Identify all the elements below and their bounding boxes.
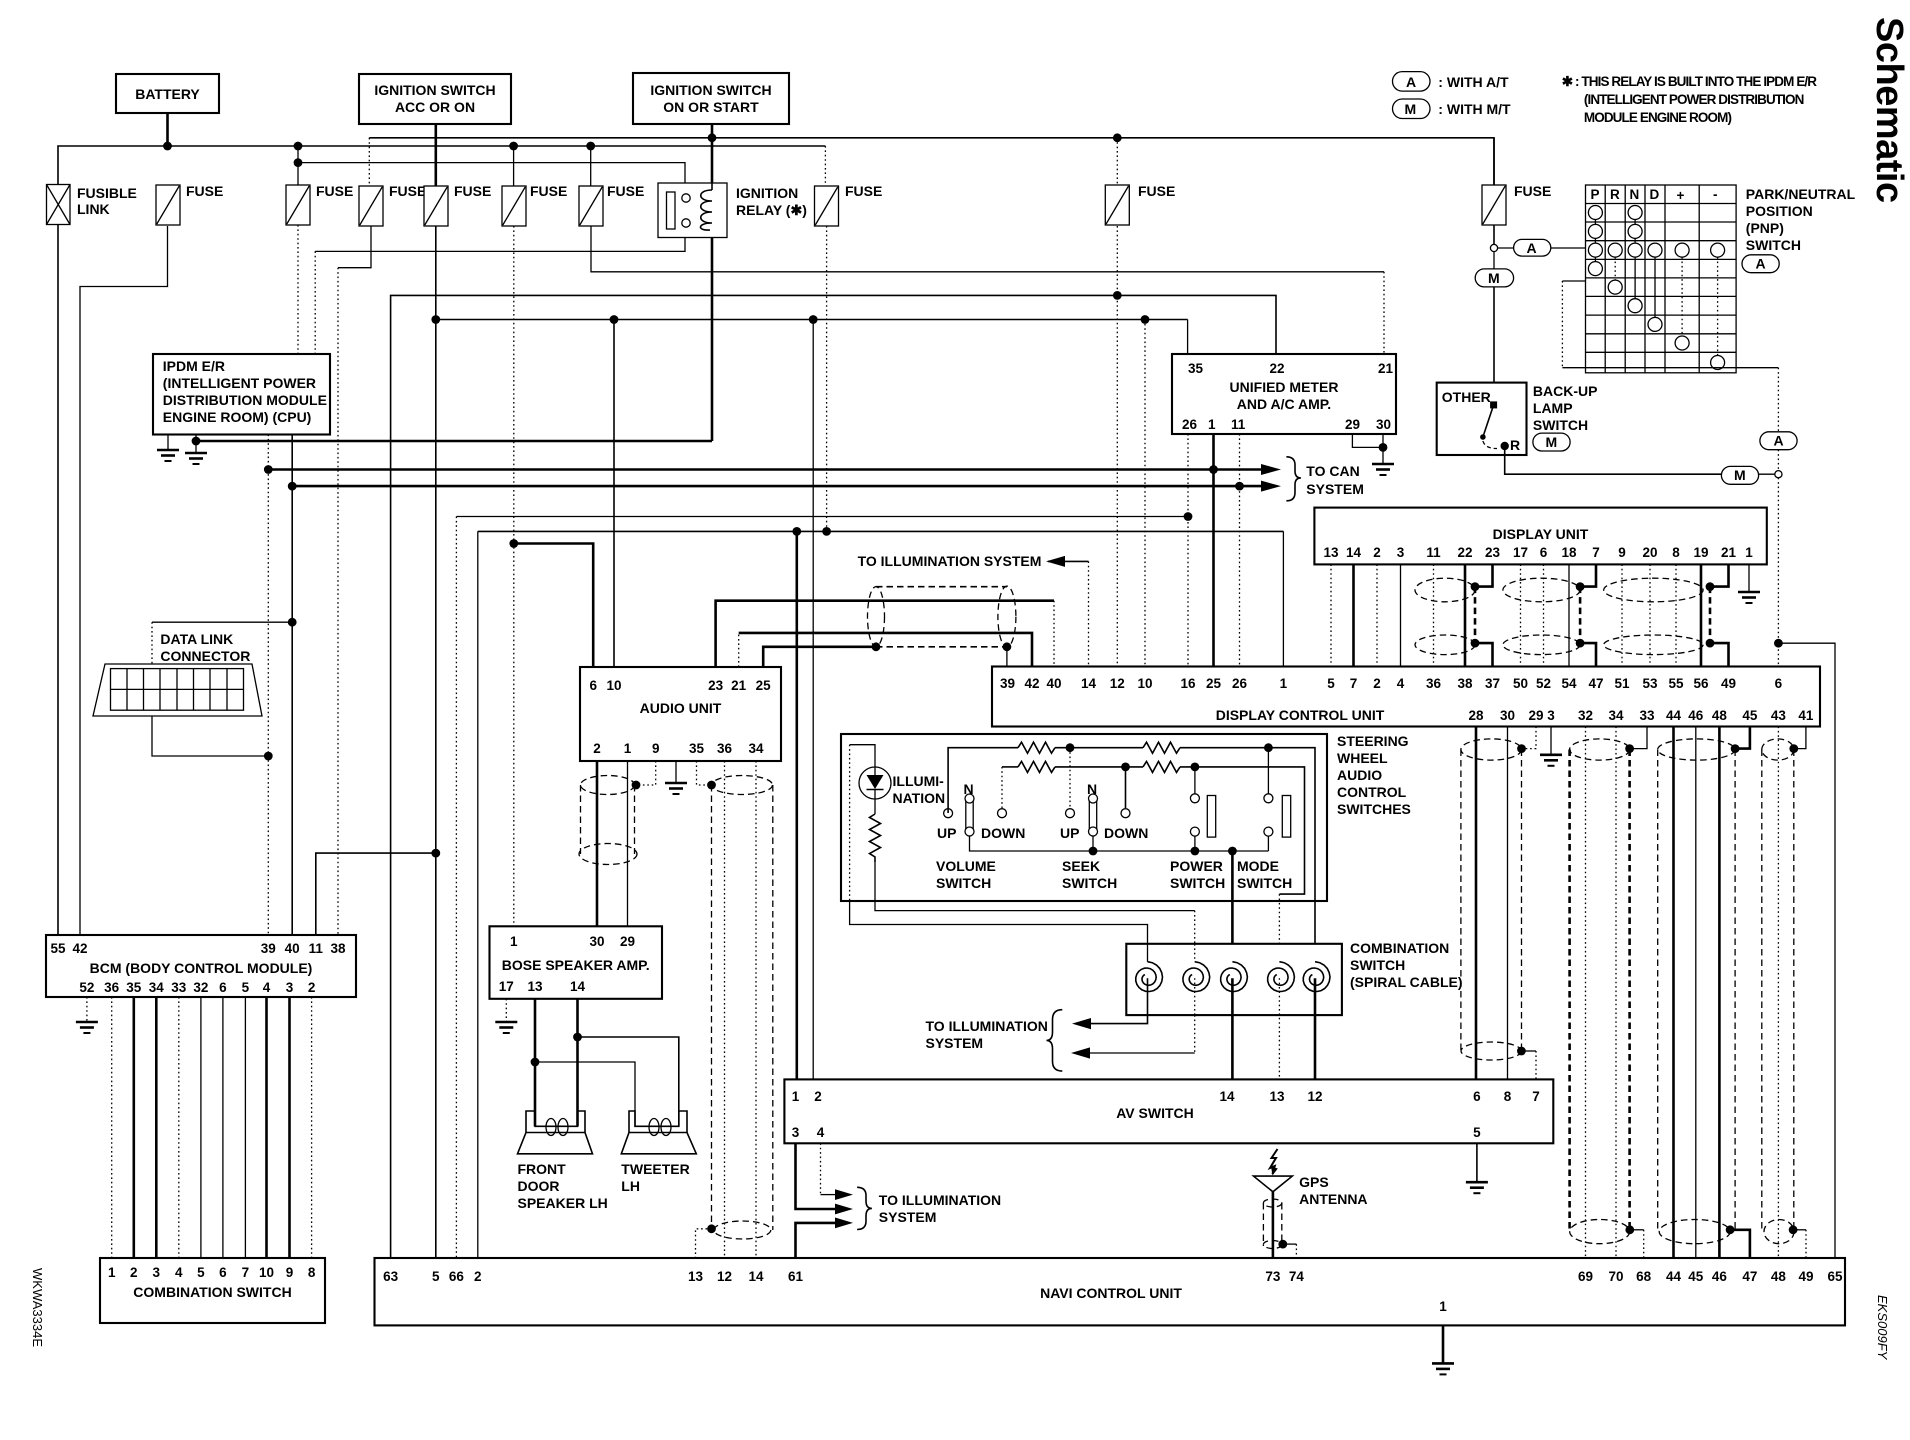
svg-text:SWITCH: SWITCH <box>1533 417 1588 433</box>
svg-text:53: 53 <box>1642 676 1658 691</box>
wire BCM4-CS10 <box>265 997 268 1258</box>
svg-text:12: 12 <box>1110 676 1125 691</box>
wire unified11 CAN-L vertical dotted <box>1239 434 1241 667</box>
wire dcu44 to navi44 <box>1672 727 1675 1259</box>
shield audio-BOSE cylinder <box>581 776 635 795</box>
svg-text:21: 21 <box>1378 361 1394 376</box>
svg-text:50: 50 <box>1513 676 1528 691</box>
wire fuse1494 out <box>1493 225 1495 245</box>
wire unified1 CAN-H vertical <box>1212 434 1215 667</box>
svg-text:AND A/C AMP.: AND A/C AMP. <box>1237 396 1331 412</box>
wire shield to DCU39 <box>1006 647 1008 667</box>
wire dcu46 to navi45 <box>1695 727 1697 1259</box>
svg-text:63: 63 <box>383 1269 399 1284</box>
wire fuse514 out dotted to BOSE1 <box>513 226 515 926</box>
wire disp6-dcu52 <box>1543 564 1545 666</box>
connector M oval backup <box>1533 433 1570 451</box>
svg-text:FUSE: FUSE <box>316 183 353 199</box>
box display unit <box>1314 508 1766 565</box>
svg-text:48: 48 <box>1771 1269 1787 1284</box>
svg-text:13: 13 <box>527 979 543 994</box>
svg-text:34: 34 <box>748 741 764 756</box>
box audio unit <box>580 667 781 761</box>
wire BCM32-CS5 <box>200 997 202 1258</box>
box display control unit <box>992 667 1820 727</box>
svg-text:9: 9 <box>286 1265 294 1280</box>
svg-text:5: 5 <box>197 1265 205 1280</box>
svg-text:FUSE: FUSE <box>845 183 882 199</box>
wire disp21-dcu49 drain <box>1710 564 1729 586</box>
svg-text:10: 10 <box>606 678 621 693</box>
svg-text:LH: LH <box>621 1178 640 1194</box>
svg-text:NAVI CONTROL UNIT: NAVI CONTROL UNIT <box>1040 1285 1182 1301</box>
wire PNP R-row to A oval (L path) <box>1562 280 1585 282</box>
wire AV5 ground <box>1476 1143 1478 1182</box>
wire BCM34-CS3 <box>155 997 158 1258</box>
svg-text:SWITCH: SWITCH <box>1237 875 1292 891</box>
spiral 1 <box>1136 944 1163 1015</box>
svg-text:SWITCH: SWITCH <box>936 875 991 891</box>
wire BOSE13 branch to tweeter <box>535 1062 635 1126</box>
svg-text:1: 1 <box>1280 676 1288 691</box>
svg-text:1: 1 <box>1208 417 1216 432</box>
wire top row y=747.7 <box>948 748 1018 813</box>
svg-text:2: 2 <box>308 980 316 995</box>
wire dcu30 to AV8 <box>1507 727 1509 1080</box>
connector data link trapezoid <box>93 664 262 716</box>
box ignition switch on/start <box>633 73 789 124</box>
svg-text:6: 6 <box>1540 545 1548 560</box>
svg-text:DOOR: DOOR <box>518 1178 560 1194</box>
wire disp19-dcu56 <box>1700 564 1703 666</box>
svg-text:1: 1 <box>1745 545 1753 560</box>
svg-text:44: 44 <box>1666 1269 1682 1284</box>
wire audio25 shield drain <box>763 647 876 667</box>
wire disp8-dcu55 <box>1675 564 1677 666</box>
wire mode upper feed <box>1267 748 1269 794</box>
wire disp3-dcu4 <box>1400 564 1402 666</box>
svg-text:A: A <box>1406 74 1416 90</box>
PNP links <box>1595 220 1717 356</box>
svg-text:POSITION: POSITION <box>1746 203 1813 219</box>
svg-text:SWITCHES: SWITCHES <box>1337 801 1411 817</box>
svg-text:73: 73 <box>1265 1269 1281 1284</box>
svg-text:R: R <box>1610 187 1620 202</box>
svg-text:39: 39 <box>261 941 276 956</box>
svg-text:7: 7 <box>1350 676 1358 691</box>
svg-text:35: 35 <box>1188 361 1204 376</box>
svg-text:SPEAKER LH: SPEAKER LH <box>518 1195 608 1211</box>
svg-text:BOSE SPEAKER AMP.: BOSE SPEAKER AMP. <box>502 957 650 973</box>
wire A/M dotted vertical to DCU6 <box>1777 478 1779 667</box>
table PNP switch grid <box>1586 185 1737 373</box>
svg-text:DISTRIBUTION MODULE: DISTRIBUTION MODULE <box>163 392 327 408</box>
wire branch to navi65 <box>1778 643 1835 1258</box>
wire to A oval <box>1498 247 1514 249</box>
svg-text:8: 8 <box>1672 545 1680 560</box>
wire disp1 ground <box>1748 564 1750 592</box>
wire fuse514 feed <box>513 146 515 186</box>
resistor R3 <box>1018 761 1055 772</box>
wire illumination out below box <box>850 901 1148 944</box>
arrow CAN1 <box>1261 464 1281 475</box>
wire second row y=766.9 <box>1001 767 1003 808</box>
shield display groupC ellipses <box>1604 578 1703 602</box>
svg-text:42: 42 <box>1024 676 1039 691</box>
svg-text:32: 32 <box>193 980 208 995</box>
connector M oval <box>1475 269 1513 287</box>
shield audio-DCU dashed cylinder <box>876 586 1007 588</box>
wire unified35 drop <box>1187 320 1189 355</box>
svg-text:74: 74 <box>1289 1269 1305 1284</box>
svg-text:3: 3 <box>1547 708 1555 723</box>
svg-text:FUSE: FUSE <box>389 183 426 199</box>
svg-text:16: 16 <box>1180 676 1196 691</box>
wire disp2-dcu2 <box>1376 564 1378 666</box>
svg-text:56: 56 <box>1693 676 1709 691</box>
brace to CAN system <box>1286 457 1301 501</box>
svg-text:FUSIBLE: FUSIBLE <box>77 185 137 201</box>
wire M oval to backup lamp switch <box>1493 287 1495 405</box>
svg-text:28: 28 <box>1468 708 1484 723</box>
wire dcu43 to navi48 dotted <box>1777 727 1779 1259</box>
svg-text:21: 21 <box>1721 545 1737 560</box>
shield display groupA ellipses <box>1415 578 1475 602</box>
brace illumination mid <box>1047 1010 1063 1071</box>
wire audio2 to BOSE30 <box>596 761 599 926</box>
antenna GPS triangle <box>1254 1176 1293 1192</box>
svg-text:46: 46 <box>1688 708 1704 723</box>
svg-text:42: 42 <box>72 941 87 956</box>
ground IPDM 2 <box>195 435 197 454</box>
box navi control unit <box>375 1258 1846 1325</box>
svg-text:30: 30 <box>589 934 604 949</box>
svg-text:14: 14 <box>1346 545 1362 560</box>
svg-text:A: A <box>1527 240 1537 256</box>
svg-text:11: 11 <box>309 941 324 956</box>
svg-text:38: 38 <box>1457 676 1473 691</box>
svg-text:LAMP: LAMP <box>1533 400 1573 416</box>
svg-text:20: 20 <box>1642 545 1657 560</box>
wire fuse298 feed <box>297 146 299 185</box>
PNP circles column P <box>1588 206 1724 370</box>
box steering wheel audio control switches <box>841 734 1327 901</box>
wire BCM40 vertical from IPDM <box>291 435 293 936</box>
wire AV3 to illumination arrow <box>796 1143 837 1209</box>
connector legend M oval <box>1393 99 1431 119</box>
svg-text:-: - <box>1713 187 1718 202</box>
resistor LED series vertical <box>870 814 881 862</box>
wire BCM35-CS2 <box>133 997 136 1258</box>
svg-text:DOWN: DOWN <box>1104 825 1148 841</box>
svg-text:35: 35 <box>126 980 142 995</box>
svg-text:N: N <box>964 781 974 797</box>
svg-text:IPDM E/R: IPDM E/R <box>163 358 225 374</box>
shield group3 cylinder <box>1658 739 1735 760</box>
svg-text:6: 6 <box>589 678 597 693</box>
svg-text:46: 46 <box>1712 1269 1728 1284</box>
svg-text:A: A <box>1774 433 1784 449</box>
svg-text:PARK/NEUTRAL: PARK/NEUTRAL <box>1746 186 1856 202</box>
wire volume common <box>970 836 1269 851</box>
fusible link <box>47 185 137 225</box>
svg-text:13: 13 <box>688 1269 704 1284</box>
switch backup lamp lever <box>1490 401 1497 408</box>
wire audio10 drop <box>613 320 615 668</box>
svg-text:36: 36 <box>1426 676 1442 691</box>
shield display groupB ellipses <box>1503 578 1580 602</box>
wire TO ILLUMINATION top DCU14 <box>1048 560 1089 562</box>
wire backup R to M oval to circle <box>1505 446 1722 474</box>
wire disp14-dcu7 <box>1352 564 1355 666</box>
wire mode common output heavy <box>1231 851 1234 962</box>
svg-text:8: 8 <box>308 1265 316 1280</box>
svg-text:1: 1 <box>1439 1299 1447 1314</box>
svg-text:DOWN: DOWN <box>981 825 1025 841</box>
antenna GPS bolt <box>1270 1149 1278 1174</box>
svg-text:A: A <box>1756 256 1766 272</box>
svg-text:SWITCH: SWITCH <box>1350 957 1405 973</box>
wire data link top branch <box>152 621 292 623</box>
shield audio-navi long cylinder <box>712 776 773 795</box>
svg-text:36: 36 <box>104 980 120 995</box>
svg-text:13: 13 <box>1323 545 1339 560</box>
svg-text:STEERING: STEERING <box>1337 733 1409 749</box>
wire AV4 to illumination arrow dotted <box>820 1143 822 1194</box>
svg-text:TO CAN: TO CAN <box>1306 463 1359 479</box>
wire dcu3 ground <box>1550 727 1552 755</box>
svg-text:COMBINATION SWITCH: COMBINATION SWITCH <box>133 1284 291 1300</box>
svg-text:2: 2 <box>814 1089 822 1104</box>
box backup lamp switch <box>1437 383 1527 455</box>
wire audio9 drain dotted <box>636 761 656 785</box>
svg-text:65: 65 <box>1827 1269 1843 1284</box>
svg-text:66: 66 <box>449 1269 465 1284</box>
svg-text:FUSE: FUSE <box>1138 183 1175 199</box>
wire unified26 net y=516.5 to navi66 <box>1187 434 1189 667</box>
connector A oval <box>1514 239 1551 256</box>
svg-text:DATA LINK: DATA LINK <box>160 631 233 647</box>
wire fuse592 out to unified21 <box>591 226 1384 272</box>
svg-text:3: 3 <box>286 980 294 995</box>
svg-text:IGNITION SWITCH: IGNITION SWITCH <box>374 82 495 98</box>
svg-text:26: 26 <box>1182 417 1198 432</box>
svg-text:7: 7 <box>1532 1089 1540 1104</box>
shield group2 cylinder heavy dashed <box>1570 739 1630 760</box>
svg-text:5: 5 <box>432 1269 440 1284</box>
svg-text:52: 52 <box>1536 676 1551 691</box>
wire dcu29 drain <box>1522 727 1537 749</box>
svg-text:32: 32 <box>1578 708 1593 723</box>
svg-text:2: 2 <box>593 741 601 756</box>
resistor R2 <box>1143 742 1180 753</box>
wire navi61 to illumination arrow <box>796 1223 837 1258</box>
svg-text:DISPLAY CONTROL UNIT: DISPLAY CONTROL UNIT <box>1216 707 1385 723</box>
svg-text:47: 47 <box>1588 676 1603 691</box>
wire BOSE13 to speaker <box>534 999 537 1127</box>
wire led out below box <box>875 901 1195 911</box>
svg-text:DISPLAY UNIT: DISPLAY UNIT <box>1493 526 1589 542</box>
wire dcu41 drain <box>1794 727 1806 749</box>
svg-text:ACC OR ON: ACC OR ON <box>395 99 475 115</box>
svg-text:10: 10 <box>1137 676 1152 691</box>
svg-text:(INTELLIGENT POWER: (INTELLIGENT POWER <box>163 375 316 391</box>
wire audio21 to DCU42 <box>738 633 740 667</box>
svg-text:14: 14 <box>748 1269 764 1284</box>
svg-text:7: 7 <box>242 1265 250 1280</box>
svg-text:23: 23 <box>708 678 724 693</box>
wire A oval to grid <box>1551 247 1586 249</box>
svg-text:70: 70 <box>1608 1269 1623 1284</box>
fuse 437 <box>424 183 491 226</box>
box combination switch <box>100 1258 325 1323</box>
LED illumination <box>859 767 891 799</box>
wire spiral2 out to illumination arrow dotted <box>1194 1015 1196 1053</box>
svg-text:M: M <box>1405 101 1417 117</box>
svg-text:33: 33 <box>1639 708 1655 723</box>
svg-text:25: 25 <box>1206 676 1222 691</box>
wire BCM33-CS4 <box>178 997 180 1258</box>
svg-text:BCM (BODY CONTROL MODULE): BCM (BODY CONTROL MODULE) <box>90 960 313 976</box>
svg-text:11: 11 <box>1426 545 1441 560</box>
box AV switch <box>784 1079 1553 1143</box>
svg-text:ANTENNA: ANTENNA <box>1299 1191 1367 1207</box>
svg-text:LINK: LINK <box>77 201 110 217</box>
svg-text:51: 51 <box>1614 676 1630 691</box>
svg-text:R: R <box>1510 437 1520 453</box>
wire BCM36-CS1 <box>111 997 113 1258</box>
shield GPS dashed <box>1263 1199 1281 1207</box>
wire ignition ON/START line y=137.8 <box>368 138 370 186</box>
brace illumination bottom right <box>857 1187 872 1229</box>
svg-text:61: 61 <box>788 1269 804 1284</box>
svg-text:CONNECTOR: CONNECTOR <box>160 648 250 664</box>
svg-text:MODULE ENGINE ROOM): MODULE ENGINE ROOM) <box>1584 110 1732 125</box>
svg-text:25: 25 <box>756 678 772 693</box>
svg-text:3: 3 <box>792 1125 800 1140</box>
svg-text:29: 29 <box>1528 708 1543 723</box>
switch power contacts <box>1190 794 1199 803</box>
svg-text:N: N <box>1087 781 1097 797</box>
svg-text:44: 44 <box>1666 708 1682 723</box>
svg-text:M: M <box>1546 434 1558 450</box>
svg-text:6: 6 <box>1775 676 1783 691</box>
svg-text:SYSTEM: SYSTEM <box>879 1209 937 1225</box>
wire fuse371 feed dotted (already ON line) fuse371 out jog <box>338 226 371 268</box>
svg-text:13: 13 <box>1269 1089 1285 1104</box>
svg-text:4: 4 <box>263 980 271 995</box>
svg-text:✱ : THIS RELAY IS BUILT INTO T: ✱ : THIS RELAY IS BUILT INTO THE IPDM E/… <box>1562 74 1818 89</box>
relay ignition <box>658 183 807 238</box>
svg-text:IGNITION: IGNITION <box>736 185 798 201</box>
wire circle to M oval <box>1493 252 1495 269</box>
svg-text:1: 1 <box>792 1089 800 1104</box>
svg-text:17: 17 <box>1513 545 1528 560</box>
switch volume: up contact <box>944 809 953 818</box>
svg-text:49: 49 <box>1798 1269 1813 1284</box>
wire disp7-dcu47 drain <box>1580 564 1596 586</box>
svg-text:54: 54 <box>1561 676 1577 691</box>
svg-text:BATTERY: BATTERY <box>135 86 200 102</box>
wire BCM11 jog to ACC <box>316 853 436 935</box>
wire disp18-dcu54 <box>1568 564 1570 666</box>
wire bus end dotted drop to fuse 826 <box>824 146 826 186</box>
fuse 1494 <box>1482 183 1551 225</box>
fuse 592 <box>579 183 644 226</box>
fuse battery <box>156 183 223 225</box>
wire main battery bus y=146 <box>58 146 825 935</box>
box IPDM <box>153 354 330 435</box>
wire dcu33 drain <box>1630 727 1647 749</box>
svg-text:29: 29 <box>620 934 635 949</box>
wire audio36 to navi12 dotted <box>724 761 726 1258</box>
svg-text:12: 12 <box>1307 1089 1322 1104</box>
svg-text:1: 1 <box>510 934 518 949</box>
svg-text:FUSE: FUSE <box>454 183 491 199</box>
svg-text:12: 12 <box>717 1269 732 1284</box>
wire BCM52 ground <box>86 997 88 1022</box>
svg-text:FUSE: FUSE <box>1514 183 1551 199</box>
svg-text:30: 30 <box>1500 708 1515 723</box>
svg-text:D: D <box>1650 187 1660 202</box>
svg-text:35: 35 <box>689 741 705 756</box>
svg-text:: WITH A/T: : WITH A/T <box>1438 74 1509 90</box>
box combination switch spiral cable <box>1126 944 1342 1015</box>
svg-text:EKS009FY: EKS009FY <box>1875 1295 1890 1361</box>
wire fuse298 out dotted to IPDM <box>297 225 299 354</box>
wire fuse1117 vertical dotted to DCU12 <box>1116 138 1118 185</box>
svg-text:22: 22 <box>1457 545 1472 560</box>
svg-text:GPS: GPS <box>1299 1174 1329 1190</box>
wire battery drop <box>166 113 169 146</box>
wire BOSE14 branch to tweeter <box>578 1037 679 1126</box>
shield group4 cylinder <box>1762 739 1794 760</box>
svg-text:M: M <box>1734 467 1746 483</box>
svg-text:2: 2 <box>1373 676 1381 691</box>
wire battery fuse out to BCM42 <box>80 226 168 935</box>
wire ACC net y=319.5 <box>435 226 437 1258</box>
box unified meter and A/C amp <box>1172 354 1396 434</box>
svg-text:19: 19 <box>1693 545 1708 560</box>
wire audio6 feed <box>514 544 593 668</box>
wire dcu28 to AV6 <box>1475 727 1478 1080</box>
wire disp22-dcu38 <box>1464 564 1467 666</box>
svg-text:3: 3 <box>1397 545 1405 560</box>
svg-text:AUDIO UNIT: AUDIO UNIT <box>640 700 722 716</box>
wire unified21 drop dotted <box>1383 272 1385 354</box>
svg-text:40: 40 <box>285 941 300 956</box>
svg-text:68: 68 <box>1636 1269 1652 1284</box>
wire group1 drain to AV7 <box>1521 1050 1536 1052</box>
wire data link bottom branch <box>152 716 268 756</box>
wire fuse1494 feed <box>1493 138 1495 185</box>
svg-text:OTHER: OTHER <box>1442 389 1491 405</box>
svg-text:29: 29 <box>1345 417 1360 432</box>
svg-text:55: 55 <box>1668 676 1684 691</box>
svg-text:11: 11 <box>1231 417 1246 432</box>
svg-text:WKWA3334E: WKWA3334E <box>30 1268 45 1347</box>
fuse 1117 <box>1105 183 1175 225</box>
svg-text:14: 14 <box>1219 1089 1235 1104</box>
svg-text:SYSTEM: SYSTEM <box>1306 481 1364 497</box>
svg-text:4: 4 <box>817 1125 825 1140</box>
wire group3 drain to navi47 <box>1730 1230 1750 1258</box>
svg-text:AV SWITCH: AV SWITCH <box>1116 1105 1194 1121</box>
switch seek toggle <box>1066 809 1075 818</box>
wire GPS shield to navi74 <box>1283 1243 1297 1245</box>
switch volume toggle <box>965 794 974 803</box>
svg-text:18: 18 <box>1561 545 1577 560</box>
